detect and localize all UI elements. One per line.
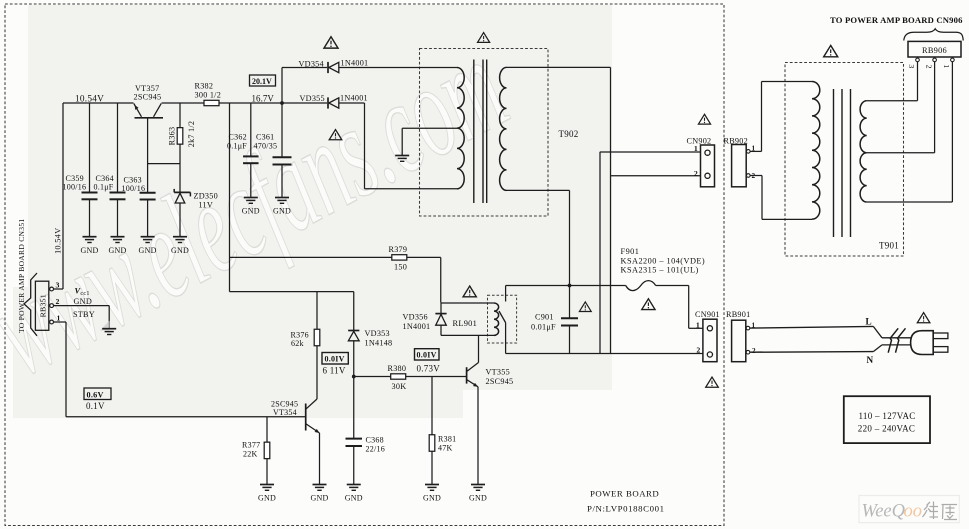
svg-text:150: 150 [394,263,407,272]
svg-text:22/16: 22/16 [366,444,385,453]
svg-text:0.6V: 0.6V [87,391,104,400]
svg-text:1N4001: 1N4001 [341,59,369,68]
svg-text:C361: C361 [256,133,274,142]
svg-text:T901: T901 [879,240,899,250]
svg-text:0.73V: 0.73V [417,363,441,373]
svg-text:22K: 22K [243,449,258,458]
svg-text:16.7V: 16.7V [252,94,275,104]
svg-text:1: 1 [57,314,61,323]
svg-text:GND: GND [345,494,363,503]
svg-text:11V: 11V [199,201,214,210]
svg-text:2: 2 [752,347,756,355]
svg-text:1: 1 [694,144,698,153]
svg-text:2: 2 [696,346,700,355]
svg-text:R379: R379 [389,245,408,254]
svg-text:2k7 1/2: 2k7 1/2 [187,121,196,148]
svg-text:220 – 240VAC: 220 – 240VAC [858,424,915,434]
svg-text:GND: GND [80,246,98,255]
svg-text:VT355: VT355 [486,368,510,377]
svg-text:0.1μF: 0.1μF [227,141,247,150]
svg-text:2: 2 [694,169,698,178]
svg-text:oo: oo [904,502,923,522]
svg-text:RB901: RB901 [726,310,750,319]
svg-text:GND: GND [242,207,260,216]
svg-text:30K: 30K [392,382,407,391]
svg-text:0.0IV: 0.0IV [417,351,437,360]
svg-text:1N4001: 1N4001 [340,93,368,102]
svg-text:C901: C901 [535,313,554,322]
svg-text:3: 3 [907,64,916,68]
svg-text:47K: 47K [438,443,453,452]
svg-text:GND: GND [171,246,189,255]
svg-text:KSA2200 – 104(VDE): KSA2200 – 104(VDE) [621,256,706,265]
svg-text:R382: R382 [195,82,214,91]
svg-text:GND: GND [273,207,291,216]
svg-text:62k: 62k [291,339,304,348]
svg-text:GND: GND [74,297,93,306]
svg-text:100/16: 100/16 [63,182,87,191]
svg-text:20.1V: 20.1V [252,77,272,86]
svg-text:100/16: 100/16 [122,184,146,193]
svg-text:CN902: CN902 [687,137,712,146]
svg-text:GND: GND [423,494,441,503]
svg-text:GND: GND [469,494,487,503]
svg-text:CN901: CN901 [695,310,720,319]
svg-text:RB351: RB351 [38,294,47,317]
svg-text:KSA2315 – 101(UL): KSA2315 – 101(UL) [621,266,699,275]
svg-text:1: 1 [942,64,951,68]
svg-text:6 11V: 6 11V [323,365,346,375]
svg-text:R377: R377 [242,441,260,450]
svg-text:0.0IV: 0.0IV [325,355,345,364]
svg-text:0.1μF: 0.1μF [94,182,114,191]
svg-text:2: 2 [56,297,60,306]
svg-text:10.54V: 10.54V [53,228,62,254]
svg-text:TO POWER AMP BOARD CN351: TO POWER AMP BOARD CN351 [17,219,26,333]
svg-text:R380: R380 [388,364,407,373]
svg-text:2SC945: 2SC945 [134,92,162,101]
svg-text:POWER BOARD: POWER BOARD [590,489,659,499]
svg-text:VD355: VD355 [300,94,325,103]
svg-text:ZD350: ZD350 [194,192,218,201]
svg-text:470/35: 470/35 [254,141,278,150]
svg-text:0.1V: 0.1V [86,401,105,411]
svg-text:R381: R381 [438,435,456,444]
svg-text:P/N:LVP0188C001: P/N:LVP0188C001 [587,503,665,513]
svg-text:R363: R363 [167,127,176,146]
svg-text:110 – 127VAC: 110 – 127VAC [858,411,915,421]
svg-text:0.01μF: 0.01μF [531,322,556,331]
svg-text:N: N [867,355,874,365]
svg-text:1: 1 [696,320,700,329]
svg-text:RB906: RB906 [922,46,947,55]
svg-text:TO POWER AMP BOARD CN906: TO POWER AMP BOARD CN906 [830,15,963,25]
svg-text:2SC945: 2SC945 [486,377,514,386]
svg-text:L: L [866,317,872,327]
svg-text:2: 2 [924,65,933,69]
svg-text:VD353: VD353 [365,329,390,338]
svg-text:T902: T902 [559,129,579,139]
svg-text:WeeQ: WeeQ [862,502,906,522]
svg-text:VD356: VD356 [403,313,428,322]
svg-text:1N4001: 1N4001 [403,322,431,331]
svg-text:STBY: STBY [73,310,95,319]
svg-text:GND: GND [310,494,328,503]
svg-text:300 1/2: 300 1/2 [195,90,222,99]
svg-text:VT354: VT354 [273,408,297,417]
svg-text:10.54V: 10.54V [75,95,104,105]
svg-text:C368: C368 [366,436,384,445]
svg-text:GND: GND [258,494,276,503]
svg-text:VD354: VD354 [299,60,324,69]
svg-text:1N4148: 1N4148 [365,338,393,347]
svg-text:3: 3 [56,281,60,290]
svg-text:F901: F901 [621,247,640,256]
svg-text:C362: C362 [229,133,247,142]
svg-text:RL901: RL901 [453,319,478,328]
svg-text:GND: GND [108,246,126,255]
svg-text:GND: GND [139,246,157,255]
